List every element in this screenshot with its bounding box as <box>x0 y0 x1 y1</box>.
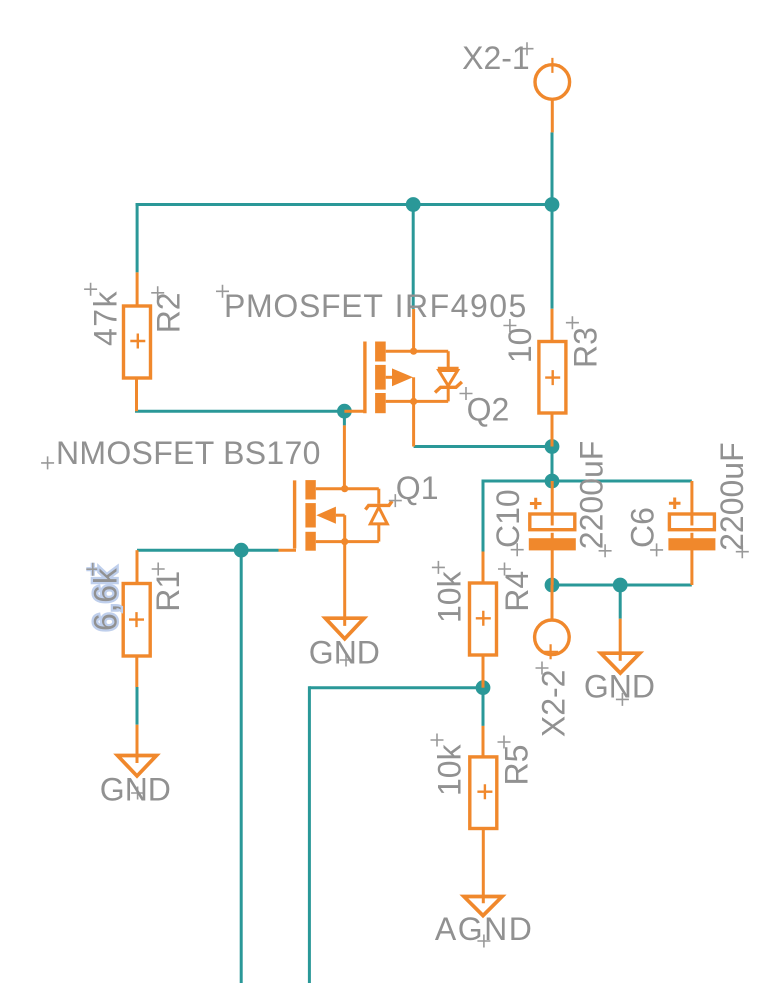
svg-text:C10: C10 <box>490 489 526 548</box>
svg-text:Q1: Q1 <box>396 470 439 506</box>
svg-text:GND: GND <box>584 669 655 705</box>
svg-text:6,6k: 6,6k <box>88 567 124 631</box>
svg-text:10k: 10k <box>432 570 468 623</box>
svg-text:AGND: AGND <box>435 911 533 947</box>
svg-text:Q2: Q2 <box>467 392 510 428</box>
svg-text:R3: R3 <box>567 327 603 368</box>
svg-text:47k: 47k <box>87 290 123 346</box>
svg-text:PMOSFET: PMOSFET <box>224 288 384 324</box>
svg-text:R4: R4 <box>499 571 535 612</box>
svg-text:R2: R2 <box>151 292 187 333</box>
svg-text:GND: GND <box>309 635 380 671</box>
svg-text:C6: C6 <box>625 507 661 548</box>
svg-text:10: 10 <box>502 328 538 364</box>
svg-text:GND: GND <box>100 771 171 807</box>
svg-text:R5: R5 <box>499 745 535 786</box>
svg-text:X2-2: X2-2 <box>536 670 572 738</box>
svg-text:X2-1: X2-1 <box>462 40 530 76</box>
svg-text:NMOSFET BS170: NMOSFET BS170 <box>56 435 321 471</box>
svg-text:IRF4905: IRF4905 <box>395 288 528 324</box>
svg-text:2200uF: 2200uF <box>714 442 750 551</box>
svg-text:2200uF: 2200uF <box>574 441 610 550</box>
svg-text:10k: 10k <box>432 743 468 796</box>
svg-text:R1: R1 <box>150 571 186 612</box>
